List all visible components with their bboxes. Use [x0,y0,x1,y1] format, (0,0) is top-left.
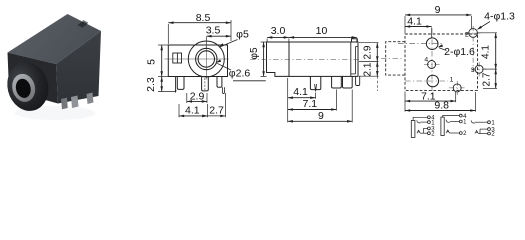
svg-text:4-φ1.3: 4-φ1.3 [484,11,515,23]
svg-text:1: 1 [450,77,454,84]
svg-text:2.7: 2.7 [482,72,493,86]
spring contact + wire + terminal 1 [417,120,421,123]
wire + terminal 3 [423,127,427,129]
plug bar [411,121,415,138]
svg-text:4.1: 4.1 [293,86,308,98]
junction wire 3-2 [479,129,481,133]
svg-text:2.3: 2.3 [145,77,157,92]
wiper contact + wire + terminal 2 [446,130,449,133]
svg-text:φ2.6: φ2.6 [229,68,251,80]
side view [249,25,379,122]
svg-text:9: 9 [435,4,441,16]
svg-text:7.1: 7.1 [302,98,317,110]
wire + terminal 3 [480,128,488,130]
svg-text:8.5: 8.5 [196,12,211,24]
schematic 3: jack switching diagram, no plug [471,120,495,137]
svg-text:2.7: 2.7 [209,104,224,116]
svg-text:3.0: 3.0 [271,25,286,37]
svg-text:5: 5 [146,59,158,65]
svg-text:9: 9 [318,110,324,122]
svg-text:2.9: 2.9 [362,45,373,59]
svg-text:φ5: φ5 [249,47,260,59]
plug bar [441,117,444,135]
svg-text:9.8: 9.8 [434,100,449,112]
wiper contact + wire + terminal 2 [475,131,478,134]
svg-text:10: 10 [316,25,328,37]
svg-text:4.1: 4.1 [185,104,200,116]
svg-text:φ5: φ5 [236,28,249,40]
spring contact + wire + terminal 1 [471,120,475,123]
svg-text:2.1: 2.1 [362,62,373,76]
svg-text:4: 4 [424,57,428,64]
svg-text:3.5: 3.5 [206,24,221,36]
svg-text:2: 2 [465,31,469,38]
photo: 3.5mm jack product image [2,14,101,120]
schematic 2: jack switching diagram, 3 terminals [441,114,467,137]
wire + terminal 4 [413,117,428,120]
wiper contact + wire + terminal 2 [417,130,420,133]
wire + terminal 4 [443,116,460,118]
bottom (PCB) view [381,4,515,112]
svg-text:2.9: 2.9 [190,90,205,102]
schematic 1: jack switching diagram, plug inserted [411,116,435,138]
front view [145,12,266,117]
junction wire 3-2 [422,128,424,133]
svg-text:4.1: 4.1 [407,16,422,28]
svg-text:3: 3 [471,67,475,74]
spring contact + wire + terminal 1 [446,120,450,123]
svg-text:2-φ1.6: 2-φ1.6 [444,46,475,58]
svg-text:4.1: 4.1 [481,45,492,59]
